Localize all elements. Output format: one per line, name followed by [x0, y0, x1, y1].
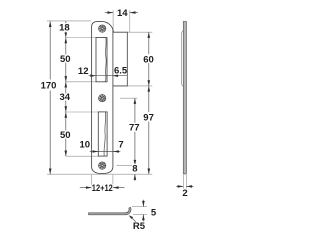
- svg-text:60: 60: [143, 54, 154, 65]
- svg-text:50: 50: [60, 54, 71, 65]
- svg-text:14: 14: [117, 8, 128, 19]
- svg-text:12: 12: [78, 66, 89, 77]
- extension line upper slot top (y1): [66, 37, 96, 39]
- svg-text:6.5: 6.5: [114, 66, 128, 77]
- lower slot wavy line: [104, 112, 106, 156]
- svg-text:R5: R5: [133, 221, 146, 232]
- dimension 2 (thickness): [182, 175, 184, 191]
- svg-text:34: 34: [60, 92, 71, 103]
- extension line 14 right (lip outer): [129, 10, 131, 32]
- extension line middle hole: [120, 97, 137, 99]
- svg-text:7: 7: [118, 140, 123, 151]
- dimension R5 leader: [130, 216, 136, 222]
- upper slot wavy line: [105, 38, 108, 82]
- extension line bottom hole: [117, 165, 138, 167]
- extension line lip bottom: [127, 85, 152, 87]
- upper slot (latch opening): [96, 38, 107, 82]
- extension line 14 left (fold line): [112, 10, 114, 29]
- extension line lip top: [127, 31, 152, 33]
- dimension 5: [132, 206, 147, 208]
- extension line bottom (plate bottom, y5): [47, 173, 152, 175]
- svg-text:77: 77: [129, 123, 140, 134]
- chain dimension line 18/50/34/50: [65, 21, 67, 24]
- extension line lower slot top (y3): [66, 111, 99, 113]
- side view plate bar: [183, 22, 186, 175]
- screw hole bottom: [99, 162, 106, 169]
- svg-text:18: 18: [59, 23, 70, 34]
- extension line top (plate top, y0): [47, 20, 91, 22]
- fold line (lip bend): [112, 30, 114, 86]
- svg-text:50: 50: [60, 130, 71, 141]
- svg-text:97: 97: [143, 112, 154, 123]
- extension line lower slot bottom (y4): [66, 155, 99, 157]
- svg-text:8: 8: [132, 163, 137, 174]
- profile view bent lip (bottom): [89, 207, 131, 214]
- dimension 12+12: [91, 175, 93, 192]
- lower slot (deadbolt opening): [98, 112, 107, 156]
- side view lip profile: [182, 30, 184, 86]
- dimension 14 line: [105, 12, 113, 14]
- front view plate outline: [92, 22, 128, 174]
- svg-text:10: 10: [80, 140, 91, 151]
- svg-text:2: 2: [182, 188, 187, 199]
- dimension 10 / 7 line: [90, 151, 121, 153]
- screw hole middle: [99, 95, 106, 102]
- extension line upper slot bottom (y2): [66, 81, 96, 83]
- svg-text:5: 5: [151, 207, 157, 218]
- svg-text:170: 170: [41, 80, 57, 91]
- screw hole top: [99, 25, 106, 32]
- svg-text:12+12: 12+12: [92, 183, 113, 194]
- dimension 12 / 6.5 line: [89, 75, 127, 77]
- chain dimension 60/97 line: [148, 32, 150, 54]
- dimension 170 line: [49, 21, 51, 79]
- chain dimension 77/8 line: [134, 98, 136, 123]
